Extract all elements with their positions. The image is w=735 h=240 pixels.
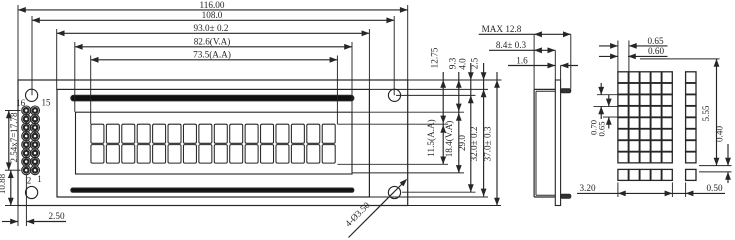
- svg-text:0.60: 0.60: [648, 46, 664, 56]
- extension line left x=18: [17, 5, 19, 80]
- extension line right x=369.4: [368, 29, 370, 90]
- ext line dot grid left down: [617, 182, 619, 197]
- svg-text:8.4± 0.3: 8.4± 0.3: [496, 40, 527, 50]
- ext line char top: [337, 123, 448, 125]
- svg-text:73.5(A.A): 73.5(A.A): [193, 50, 231, 60]
- svg-text:11.5(A.A): 11.5(A.A): [426, 119, 436, 156]
- side view bezel frame: [534, 89, 555, 197]
- bottom polarizer bar: [71, 188, 354, 192]
- extension line left x=90.7: [90, 56, 92, 125]
- side view PCB: [555, 80, 560, 206]
- ext line PCB left edge down: [17, 206, 19, 227]
- svg-text:82.6(V.A): 82.6(V.A): [194, 37, 231, 47]
- svg-text:108.0: 108.0: [202, 10, 223, 20]
- mounting hole top-right: [388, 89, 400, 101]
- svg-text:3.20: 3.20: [579, 183, 595, 193]
- dim line 12.75 / 11.5(A.A): [426, 47, 446, 164]
- ext line PCB top: [408, 79, 502, 81]
- ext line pin column down: [25, 175, 27, 227]
- ext line pad row8: [5, 169, 21, 171]
- dim line 2.54x7=17.78: [6, 111, 19, 171]
- svg-text:0.65: 0.65: [647, 36, 663, 46]
- dimension 93.0 line: [57, 23, 370, 36]
- character cell matrix 16x2: [91, 124, 335, 163]
- ext line PCB front up: [554, 50, 556, 80]
- extension line left x=32: [31, 16, 33, 95]
- svg-text:0.50: 0.50: [706, 183, 722, 193]
- ext line pad row1: [5, 110, 21, 112]
- ext line PCB bottom: [408, 205, 501, 207]
- dim 8.4 +- 0.3: [489, 40, 555, 53]
- svg-text:29.0: 29.0: [457, 135, 467, 151]
- extension line left x=56.7: [56, 29, 58, 90]
- dim line 4.0 / 29.0: [457, 58, 474, 192]
- dimension 73.5 line: [91, 50, 338, 63]
- ext line bar bottom: [402, 191, 476, 193]
- side view bezel top tab: [561, 89, 571, 93]
- dim line 37.0: [482, 72, 500, 206]
- bezel frame outline: [57, 89, 369, 197]
- ext line cursor top right: [699, 171, 732, 173]
- svg-text:5.55: 5.55: [701, 105, 711, 121]
- pin label 1: [37, 174, 42, 184]
- ext line VA top: [352, 111, 464, 113]
- ext line dot col2 left: [628, 41, 630, 72]
- svg-text:15: 15: [42, 98, 52, 108]
- svg-text:9.3: 9.3: [447, 57, 457, 69]
- adjacent cursor dot: [686, 169, 696, 180]
- dim 0.65 top: [599, 36, 668, 49]
- dim 0.70 left: [588, 83, 604, 135]
- dim 0.40: [714, 126, 731, 183]
- extension line right x=394.2: [393, 16, 395, 95]
- pin label 15: [42, 98, 52, 108]
- dim 0.50: [672, 183, 725, 196]
- ext line bezel bottom: [369, 196, 488, 198]
- pin header pads 2x8: [22, 106, 40, 175]
- svg-text:12.75: 12.75: [429, 47, 439, 68]
- leader 4-Ø3.50: [343, 179, 407, 238]
- dimension 82.6 line: [75, 37, 352, 50]
- ext line dot col1 left: [617, 41, 619, 72]
- svg-text:93.0± 0.2: 93.0± 0.2: [194, 23, 229, 33]
- dim line 9.3 / 18.4(V.A): [444, 57, 462, 173]
- ext line dots bottom 5.55: [699, 165, 732, 167]
- svg-text:2.54x7=17.78: 2.54x7=17.78: [9, 112, 19, 163]
- ext line adj col left down: [685, 182, 687, 197]
- svg-text:1: 1: [37, 174, 42, 184]
- top polarizer bar: [71, 95, 354, 100]
- svg-text:2.5: 2.5: [469, 57, 479, 69]
- ext line dot row4 bottom: [603, 116, 618, 118]
- ext line dots top right: [640, 58, 720, 60]
- dim line 2.50: [2, 211, 66, 224]
- svg-text:0.40: 0.40: [714, 126, 724, 142]
- mounting hole bottom-left: [26, 186, 38, 198]
- adjacent column 8 dots: [686, 72, 696, 163]
- svg-text:16: 16: [16, 98, 26, 108]
- svg-text:10.88: 10.88: [0, 173, 7, 194]
- dimension 116.00 line: [18, 0, 408, 13]
- svg-text:1.6: 1.6: [516, 55, 528, 65]
- svg-text:37.0± 0.3: 37.0± 0.3: [482, 126, 492, 161]
- extension line right x=352: [351, 42, 353, 112]
- svg-text:0.65: 0.65: [596, 121, 606, 136]
- pin label 16: [16, 98, 26, 108]
- LCD viewing area (V.A) outline: [76, 112, 353, 174]
- dim 3.20: [577, 183, 672, 196]
- dim line 10.88: [0, 170, 14, 205]
- dim MAX 12.8: [479, 24, 571, 37]
- svg-text:2.50: 2.50: [48, 211, 64, 221]
- dim 1.6: [508, 55, 578, 68]
- svg-text:116.00: 116.00: [200, 0, 225, 10]
- ext line PCB back up: [560, 66, 562, 81]
- svg-text:2: 2: [27, 175, 32, 185]
- dim line 2.5 / 32.0: [469, 57, 486, 196]
- PCB board outline (front view): [18, 80, 408, 206]
- svg-text:4.0: 4.0: [457, 58, 467, 70]
- dot matrix 5x8 grid: [618, 72, 672, 163]
- ext line bezel front up: [533, 34, 535, 89]
- ext line tab right up: [570, 34, 572, 89]
- svg-text:MAX 12.8: MAX 12.8: [482, 24, 522, 34]
- ext line PCB bottom-left: [5, 205, 18, 207]
- dim 0.60 top: [599, 46, 668, 59]
- dim 0.65 left: [596, 95, 611, 137]
- mounting hole bottom-right: [388, 186, 400, 198]
- extension line right x=407.7: [407, 5, 409, 80]
- ext line bezel top: [369, 88, 488, 90]
- dimension 108.0 line: [32, 10, 394, 23]
- dim 5.55: [701, 59, 719, 166]
- pin label 2: [27, 175, 32, 185]
- extension line left x=74.8: [74, 42, 76, 112]
- ext line dot grid right down: [671, 182, 673, 197]
- svg-text:32.0± 0.2: 32.0± 0.2: [469, 126, 479, 161]
- ext line char bottom: [337, 163, 448, 165]
- side view bezel bottom tab: [561, 194, 571, 198]
- mounting hole top-left: [26, 89, 38, 101]
- ext line dot row3 top: [597, 94, 618, 96]
- extension line right x=337.4: [336, 56, 338, 125]
- ext line bar top: [396, 94, 476, 96]
- cursor row 5 dots: [618, 169, 672, 180]
- ext line dot row4 top: [594, 105, 618, 107]
- svg-text:18.4(V.A): 18.4(V.A): [444, 121, 454, 158]
- ext line VA bottom: [352, 172, 464, 174]
